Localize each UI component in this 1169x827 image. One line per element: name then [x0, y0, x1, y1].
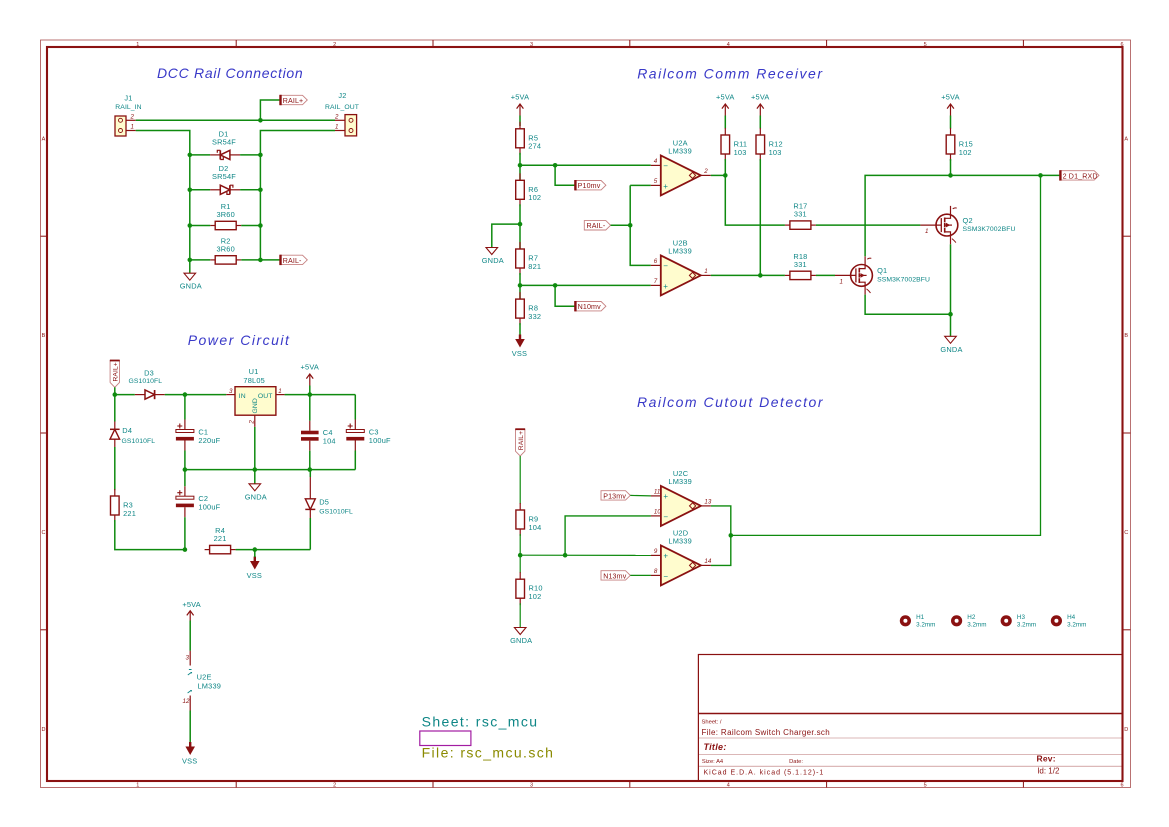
sheet symbol rsc_mcu: [420, 714, 555, 761]
svg-text:2: 2: [249, 420, 256, 425]
ground GNDA (mosfets): [940, 336, 962, 354]
wire R12 down: [759, 159, 761, 275]
svg-text:GND: GND: [252, 398, 259, 413]
svg-text:Size: A4: Size: A4: [702, 759, 724, 765]
capacitor C1 220uF: [176, 420, 221, 451]
frame row letters: [42, 136, 1129, 733]
junction: [258, 188, 263, 193]
svg-text:Rev:: Rev:: [1037, 753, 1056, 763]
diode D5 GS1010FL: [305, 477, 353, 518]
op-amp U2E LM339 power unit: [183, 651, 222, 711]
svg-text:5: 5: [924, 783, 927, 789]
svg-text:6: 6: [654, 258, 658, 265]
ground GNDA (U1): [245, 484, 267, 502]
wire RAIL+ drop: [114, 387, 116, 394]
wire to U2D+: [520, 554, 651, 556]
ground GNDA (cutout): [510, 628, 532, 646]
wire to RAIL+ label: [260, 100, 280, 120]
junction: [253, 547, 258, 552]
junction: [258, 153, 263, 158]
svg-text:SSM3K7002BFU: SSM3K7002BFU: [877, 276, 930, 283]
wire D4 top: [114, 395, 116, 422]
svg-text:B: B: [1124, 333, 1128, 339]
power VSS (R4): [247, 557, 262, 581]
svg-text:3R60: 3R60: [216, 210, 234, 219]
ground GNDA (divider): [482, 248, 504, 266]
power +5VA: [941, 93, 960, 116]
svg-text:332: 332: [528, 312, 541, 321]
svg-text:274: 274: [528, 142, 541, 151]
svg-text:7: 7: [654, 278, 658, 285]
wire D1 right: [240, 154, 260, 156]
wire RAIL+ to R9: [519, 456, 521, 504]
svg-text:GNDA: GNDA: [180, 282, 202, 291]
svg-text:GS1010FL: GS1010FL: [122, 438, 156, 445]
wire D3 left: [115, 394, 135, 396]
svg-text:VSS: VSS: [512, 349, 527, 358]
svg-text:1: 1: [840, 278, 843, 285]
svg-text:+: +: [663, 182, 668, 191]
svg-text:H4: H4: [1067, 614, 1076, 621]
svg-text:N10mv: N10mv: [578, 303, 602, 311]
wire Q2 source: [950, 244, 952, 336]
wire C1 top: [184, 395, 186, 420]
svg-text:331: 331: [794, 260, 807, 269]
svg-text:1: 1: [704, 268, 707, 275]
svg-text:3: 3: [229, 388, 233, 395]
svg-text:+5VA: +5VA: [751, 93, 770, 102]
wire C3 top: [354, 395, 356, 420]
wire Q1 source: [865, 295, 950, 315]
wire to U2B+: [520, 284, 651, 286]
resistor R18 331: [785, 252, 816, 280]
power +5VA (U2E): [182, 600, 201, 621]
wire R2 left: [190, 259, 210, 261]
svg-text:RAIL+: RAIL+: [283, 97, 304, 105]
svg-text:RAIL-: RAIL-: [587, 222, 606, 230]
svg-text:J2: J2: [338, 91, 346, 100]
diode D1 SR54F: [210, 129, 240, 159]
wire to GNDA: [492, 224, 520, 247]
wire R10-GNDA: [519, 603, 521, 627]
svg-text:4: 4: [654, 158, 658, 165]
mounting hole H3: [1001, 614, 1037, 628]
svg-text:−: −: [663, 261, 668, 270]
wire D2 right: [240, 189, 260, 191]
svg-text:+5VA: +5VA: [511, 93, 530, 102]
power VSS (divider): [512, 335, 527, 359]
junction: [948, 173, 953, 178]
svg-text:1: 1: [925, 228, 928, 235]
resistor R11 103: [721, 128, 747, 161]
global label P13mv: [601, 491, 630, 501]
svg-text:103: 103: [734, 148, 747, 157]
global label RAIL-: [281, 255, 308, 265]
power VSS (U2E): [182, 742, 197, 766]
junction: [518, 553, 523, 558]
svg-text:P13mv: P13mv: [603, 492, 626, 500]
wire +5VA to U2E: [189, 621, 191, 651]
svg-text:2: 2: [334, 113, 339, 120]
junction: [518, 222, 523, 227]
svg-text:LM339: LM339: [668, 477, 692, 486]
svg-text:3.2mm: 3.2mm: [1067, 622, 1086, 629]
wire R6-R7: [519, 204, 521, 249]
wire RAIL- in: [611, 224, 631, 226]
svg-text:104: 104: [323, 437, 336, 446]
wire R17 to Q2 gate: [816, 224, 921, 226]
wire R8-VSS: [519, 323, 521, 335]
svg-text:RAIL_IN: RAIL_IN: [115, 104, 141, 111]
svg-text:C: C: [1124, 530, 1128, 536]
power +5VA: [716, 93, 735, 116]
svg-text:GS1010FL: GS1010FL: [129, 378, 163, 385]
junction: [308, 467, 313, 472]
wire R11 down: [724, 159, 726, 175]
wire to RAIL- label: [260, 259, 280, 261]
diode D3 GS1010FL: [129, 368, 165, 399]
svg-text:File: rsc_mcu.sch: File: rsc_mcu.sch: [422, 744, 555, 760]
svg-text:13: 13: [704, 498, 711, 505]
svg-text:Date:: Date:: [789, 759, 803, 765]
svg-text:B: B: [42, 333, 46, 339]
svg-text:100uF: 100uF: [198, 503, 220, 512]
svg-text:220uF: 220uF: [198, 436, 220, 445]
wire RXD rail: [865, 175, 1060, 256]
svg-text:2: 2: [333, 783, 336, 789]
svg-text:H2: H2: [967, 614, 976, 621]
svg-text:1: 1: [131, 124, 134, 131]
svg-text:3.2mm: 3.2mm: [1017, 622, 1036, 629]
wire C4 bottom: [309, 451, 311, 470]
capacitor C4 104: [301, 421, 336, 451]
svg-text:SSM3K7002BFU: SSM3K7002BFU: [963, 226, 1016, 233]
svg-text:LM339: LM339: [668, 147, 692, 156]
power +5VA: [511, 93, 530, 116]
wire to U2C-: [565, 516, 651, 555]
svg-text:Railcom Cutout Detector: Railcom Cutout Detector: [637, 394, 824, 410]
wire R1 left: [190, 225, 210, 227]
svg-text:Id: 1/2: Id: 1/2: [1037, 767, 1060, 776]
svg-text:LM339: LM339: [668, 537, 692, 546]
svg-text:100uF: 100uF: [369, 436, 391, 445]
wire to VSS: [254, 550, 256, 557]
junction: [183, 467, 188, 472]
junction: [183, 547, 188, 552]
svg-text:11: 11: [654, 489, 660, 496]
svg-text:LM339: LM339: [668, 247, 692, 256]
wire mid rail: [185, 469, 355, 471]
svg-text:102: 102: [959, 148, 972, 157]
wire C1 bottom: [184, 451, 186, 470]
svg-text:GNDA: GNDA: [510, 636, 532, 645]
svg-text:VSS: VSS: [182, 757, 197, 766]
wire R9-R10: [519, 534, 521, 573]
ground GNDA: [180, 273, 202, 291]
wire U2A out to R17: [725, 175, 785, 225]
svg-text:D3: D3: [144, 368, 154, 377]
junction: [1038, 173, 1043, 178]
wire U1 out: [285, 394, 356, 396]
transistor Q1 SSM3K7002BFU: [835, 256, 930, 294]
junction: [253, 467, 258, 472]
svg-text:SR54F: SR54F: [212, 137, 236, 146]
svg-text:−: −: [663, 572, 668, 581]
resistor R5 274: [516, 122, 542, 155]
wire U1 gnd: [254, 427, 256, 484]
svg-text:Power Circuit: Power Circuit: [188, 332, 291, 348]
svg-text:−: −: [663, 161, 668, 170]
wire to N10mv: [555, 285, 575, 306]
diode D2 SR54F: [210, 164, 240, 194]
wire cutout to RXD rail: [731, 175, 1041, 535]
svg-text:D: D: [42, 727, 46, 733]
wire N13mv in: [630, 574, 651, 576]
svg-text:+5VA: +5VA: [301, 363, 320, 372]
power +5VA: [301, 363, 320, 386]
global label N10mv: [575, 301, 606, 311]
connector J1 RAIL_IN: [115, 94, 142, 137]
op-amp U2A LM339: [651, 139, 711, 196]
mounting hole H2: [951, 614, 987, 628]
global label RAIL+ (cutout): [515, 429, 525, 456]
svg-text:221: 221: [123, 509, 136, 518]
svg-text:+5VA: +5VA: [716, 93, 735, 102]
junction: [553, 163, 558, 168]
svg-text:U1: U1: [249, 367, 259, 376]
svg-text:DCC Rail Connection: DCC Rail Connection: [157, 65, 303, 81]
svg-text:A: A: [42, 136, 46, 142]
wire C2 bottom: [184, 517, 186, 549]
wire cutout outputs: [711, 506, 731, 566]
junction: [258, 118, 263, 123]
svg-text:D4: D4: [122, 426, 132, 435]
mounting hole H1: [900, 614, 936, 628]
wire C3 bottom: [354, 451, 356, 470]
svg-text:GNDA: GNDA: [482, 256, 504, 265]
mounting hole H4: [1051, 614, 1087, 628]
power +5VA: [751, 93, 770, 116]
op-amp U2B LM339: [651, 239, 711, 296]
svg-text:RAIL+: RAIL+: [113, 362, 120, 381]
wire D5 bottom: [309, 518, 311, 550]
junction: [188, 188, 193, 193]
wire +5VA to R15: [950, 116, 952, 129]
junction: [188, 153, 193, 158]
svg-text:IN: IN: [239, 393, 246, 400]
resistor R12 103: [756, 128, 783, 161]
junction: [308, 392, 313, 397]
transistor Q2 SSM3K7002BFU: [920, 206, 1015, 244]
op-amp U2C LM339: [651, 469, 712, 526]
wire to P10mv: [555, 165, 575, 185]
svg-text:1: 1: [335, 124, 338, 131]
wire R15 down: [950, 159, 952, 175]
junction: [723, 173, 728, 178]
wire D4-R3: [114, 447, 116, 490]
junction: [729, 533, 734, 538]
op-amp U2D LM339: [651, 529, 712, 586]
junction: [188, 223, 193, 228]
svg-text:102: 102: [528, 193, 541, 202]
resistor R2 3R60: [210, 236, 241, 264]
svg-text:KiCad E.D.A. kicad (5.1.12)-1: KiCad E.D.A. kicad (5.1.12)-1: [704, 770, 825, 777]
svg-text:103: 103: [769, 148, 782, 157]
wire U2B out to R18: [711, 274, 785, 276]
junction: [113, 392, 118, 397]
global label RAIL+: [281, 95, 308, 105]
svg-text:331: 331: [794, 210, 807, 219]
svg-text:14: 14: [704, 558, 711, 565]
wire R4 to D5: [236, 549, 311, 551]
wire J2.2 down: [260, 131, 335, 260]
junction: [258, 223, 263, 228]
wire R7-R8: [519, 273, 521, 299]
capacitor C3 100uF: [346, 420, 391, 451]
wire R18 to Q1 gate: [816, 274, 835, 276]
svg-text:2: 2: [703, 168, 708, 175]
resistor R4 221: [205, 526, 236, 554]
svg-text:2: 2: [130, 113, 135, 120]
svg-text:J1: J1: [124, 94, 132, 103]
global label P10mv: [575, 180, 606, 190]
svg-text:File: Railcom Switch Charger.s: File: Railcom Switch Charger.sch: [702, 728, 831, 737]
junction: [758, 273, 763, 278]
junction: [518, 283, 523, 288]
svg-text:Title:: Title:: [704, 742, 727, 752]
svg-text:78L05: 78L05: [243, 376, 265, 385]
svg-text:Q1: Q1: [877, 266, 887, 275]
junction: [518, 163, 523, 168]
svg-text:C: C: [42, 530, 46, 536]
wire R3 to bottom rail: [115, 520, 185, 550]
wire R1 right: [241, 225, 260, 227]
wire to U2A+: [630, 184, 651, 186]
wire D2 left: [190, 189, 210, 191]
svg-text:3: 3: [186, 655, 190, 662]
svg-text:6: 6: [1120, 783, 1123, 789]
resistor R1 3R60: [210, 202, 241, 230]
svg-text:3.2mm: 3.2mm: [916, 622, 935, 629]
title block text: [702, 719, 1060, 776]
svg-text:Sheet: rsc_mcu: Sheet: rsc_mcu: [422, 714, 539, 730]
svg-text:821: 821: [528, 262, 541, 271]
svg-text:GNDA: GNDA: [940, 345, 962, 354]
svg-text:221: 221: [214, 534, 227, 543]
svg-text:RAIL+: RAIL+: [518, 431, 525, 450]
svg-text:Railcom Comm Receiver: Railcom Comm Receiver: [637, 66, 823, 82]
wire to U2A-: [520, 164, 651, 166]
wire +5VA to out: [309, 386, 311, 395]
capacitor C2 100uF: [176, 486, 221, 517]
title block: [698, 655, 1122, 782]
wire D3 to U1: [165, 394, 227, 396]
junction: [258, 258, 263, 263]
svg-text:P10mv: P10mv: [578, 182, 601, 190]
svg-text:VSS: VSS: [247, 571, 262, 580]
global label RAIL- (receiver): [584, 221, 610, 231]
svg-text:GNDA: GNDA: [245, 492, 267, 501]
junction: [183, 392, 188, 397]
svg-text:10: 10: [654, 509, 661, 516]
wire R2 right: [241, 259, 260, 261]
svg-text:A: A: [1124, 136, 1128, 142]
svg-text:3R60: 3R60: [216, 244, 234, 253]
wire +5VA to R11: [724, 116, 726, 129]
svg-text:5: 5: [924, 42, 927, 48]
global label 2 D1_RXD: [1060, 170, 1099, 180]
svg-text:OUT: OUT: [258, 393, 273, 400]
wire R5-R6: [519, 153, 521, 181]
svg-text:+: +: [663, 492, 668, 501]
svg-text:+: +: [663, 282, 668, 291]
svg-text:104: 104: [529, 523, 542, 532]
svg-text:3: 3: [530, 783, 533, 789]
svg-text:102: 102: [529, 592, 542, 601]
svg-text:5: 5: [654, 178, 658, 185]
wire D1 left: [190, 154, 210, 156]
svg-text:1: 1: [136, 42, 139, 48]
svg-text:N13mv: N13mv: [603, 572, 627, 580]
svg-text:D5: D5: [319, 498, 329, 507]
junction: [563, 553, 568, 558]
svg-text:+5VA: +5VA: [182, 600, 201, 609]
svg-text:D: D: [1124, 727, 1128, 733]
svg-text:3: 3: [530, 42, 533, 48]
svg-text:GS1010FL: GS1010FL: [319, 508, 353, 515]
junction: [948, 312, 953, 317]
svg-text:+5VA: +5VA: [941, 93, 960, 102]
junction: [553, 283, 558, 288]
svg-text:LM339: LM339: [198, 681, 222, 690]
svg-text:3.2mm: 3.2mm: [967, 622, 986, 629]
junction: [628, 223, 633, 228]
svg-text:12: 12: [183, 698, 190, 705]
svg-text:1: 1: [136, 783, 139, 789]
wire RAIL- bus: [630, 185, 651, 265]
wire +5VA to R12: [759, 116, 761, 129]
wire U2E to VSS: [189, 711, 191, 744]
wire J1.1-J2.1: [136, 119, 335, 121]
svg-text:H1: H1: [916, 614, 925, 621]
resistor R9 104: [516, 503, 542, 536]
svg-text:RAIL_OUT: RAIL_OUT: [325, 104, 359, 111]
svg-text:2 D1_RXD: 2 D1_RXD: [1063, 172, 1098, 180]
wire U2A out: [711, 174, 726, 176]
svg-text:8: 8: [654, 568, 658, 575]
wire C2 top: [184, 470, 186, 487]
svg-text:6: 6: [1120, 42, 1123, 48]
svg-text:1: 1: [278, 388, 281, 395]
wire +5VA to R5: [519, 116, 521, 127]
wire C4 top: [309, 395, 311, 421]
regulator U1 78L05: [226, 367, 284, 427]
global label N13mv: [601, 571, 630, 581]
svg-text:SR54F: SR54F: [212, 172, 236, 181]
svg-text:−: −: [663, 512, 668, 521]
resistor R8 332: [516, 292, 542, 325]
resistor R10 102: [516, 572, 543, 605]
global label RAIL+ (power): [110, 361, 120, 388]
wire D5 top: [309, 470, 311, 477]
svg-text:Sheet: /: Sheet: /: [702, 719, 722, 725]
svg-text:+: +: [663, 551, 668, 560]
svg-text:9: 9: [654, 548, 658, 555]
svg-text:4: 4: [727, 783, 730, 789]
svg-text:U2E: U2E: [197, 672, 212, 681]
svg-text:RAIL-: RAIL-: [283, 257, 302, 265]
frame column numbers: [136, 42, 1123, 789]
